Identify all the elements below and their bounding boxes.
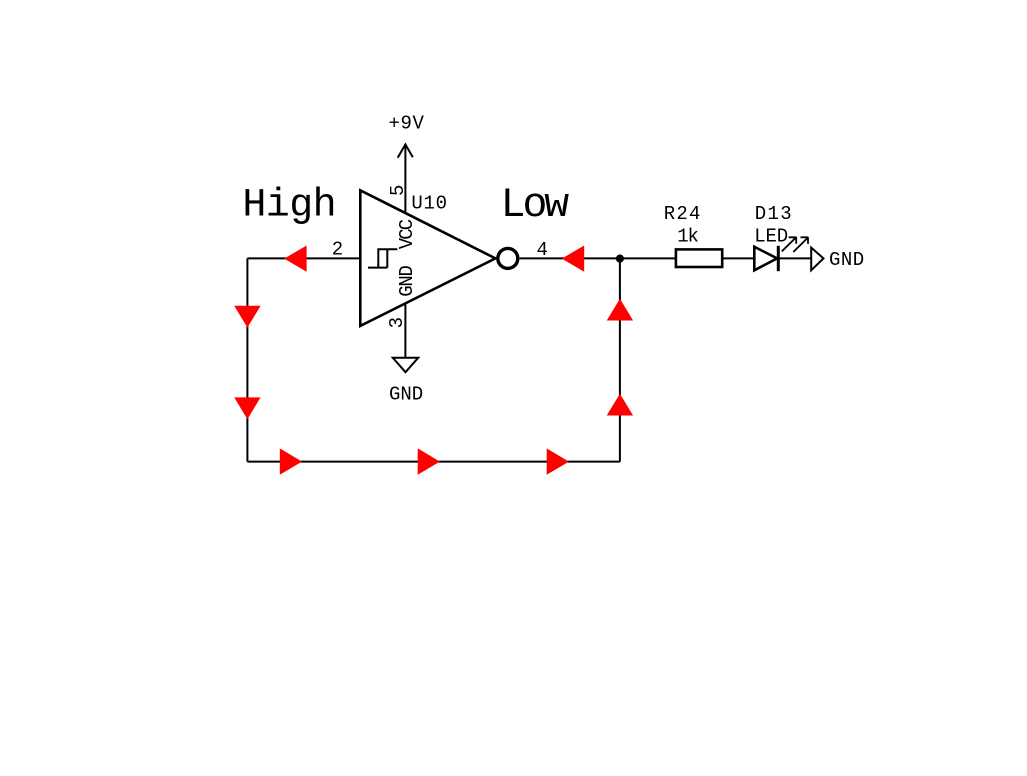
LED emission arrow 1 [782,237,797,251]
resistor R24 body [676,249,722,267]
junction node dot [616,255,624,263]
svg-text:U10: U10 [411,193,447,215]
current arrow right left on bottom wire [280,448,302,474]
svg-text:LED: LED [754,226,788,248]
LED cathode bar [777,246,780,271]
current arrow left on input wire [284,246,306,272]
wire: feedback corner to pin 2 (input net) [247,257,360,259]
current arrow up upper on right vertical wire [607,299,633,321]
ground symbol below gate [393,358,418,372]
svg-text:2: 2 [332,239,343,261]
svg-text:GND: GND [829,249,864,271]
schmitt trigger hysteresis symbol [368,249,397,267]
svg-text:4: 4 [537,239,548,261]
current arrow down lower on left vertical wire [234,397,260,419]
svg-text:D13: D13 [755,203,792,225]
current arrow down upper on left vertical wire [234,306,260,328]
svg-text:+9V: +9V [389,113,425,135]
inverter output bubble [498,248,518,268]
LED D13 anode triangle [754,247,777,271]
+9V arrow head chevron [398,144,413,157]
LED emission arrow 2 [793,237,808,252]
current arrow up lower on right vertical wire [607,394,633,416]
wire: left vertical of feedback loop [246,258,248,461]
svg-text:VCC: VCC [396,219,418,249]
current arrow left on output wire [562,246,584,272]
current arrow right middle on bottom wire [418,448,440,474]
GND net flag triangle [811,248,823,271]
pin 3 wire to GND [404,304,406,358]
svg-text:GND: GND [389,384,423,406]
svg-text:Low: Low [501,182,570,229]
current arrow right right on bottom wire [547,448,569,474]
pin 5 wire to +9V [404,144,406,212]
wire: output pin 4 to resistor [520,257,676,259]
inverter U10 triangle body [360,190,495,326]
svg-text:GND: GND [396,265,418,296]
wire: bottom of feedback loop [247,461,620,463]
svg-text:High: High [242,183,336,228]
wire: LED to GND flag [778,257,811,259]
wire: resistor to LED [722,257,754,259]
svg-text:R24: R24 [664,203,701,225]
svg-text:1k: 1k [677,226,699,248]
wire: right vertical of feedback loop [619,258,621,461]
